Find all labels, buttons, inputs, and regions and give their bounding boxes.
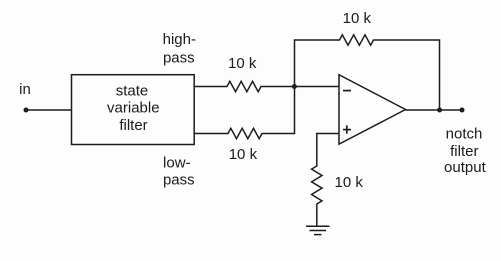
svg-text:10 k: 10 k	[343, 10, 372, 27]
svg-text:10 k: 10 k	[228, 55, 257, 72]
svg-text:pass: pass	[163, 171, 195, 188]
svg-text:low-: low-	[163, 155, 191, 172]
svg-text:in: in	[19, 81, 31, 98]
svg-text:10 k: 10 k	[335, 174, 364, 191]
svg-text:notch: notch	[446, 126, 483, 143]
svg-text:filter: filter	[450, 143, 478, 160]
svg-text:filter: filter	[119, 117, 147, 134]
svg-text:state: state	[116, 82, 149, 99]
svg-text:output: output	[444, 159, 487, 176]
svg-text:high-: high-	[163, 31, 196, 48]
svg-text:10 k: 10 k	[229, 146, 258, 163]
svg-text:pass: pass	[163, 49, 195, 66]
svg-text:variable: variable	[107, 99, 160, 116]
